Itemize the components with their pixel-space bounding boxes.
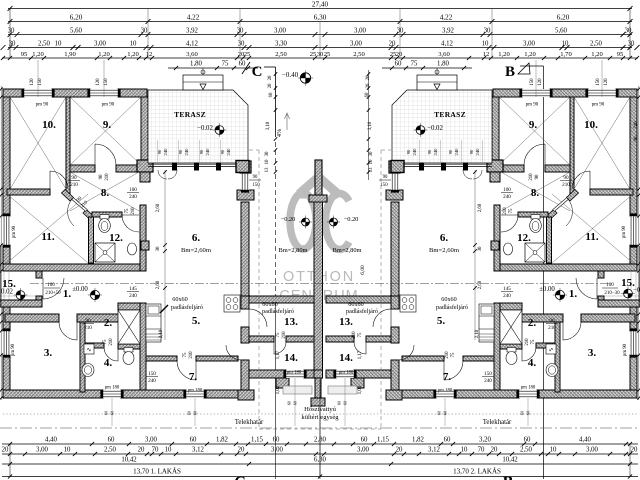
svg-text:240: 240 [129,293,137,299]
svg-text:210−30: 210−30 [604,291,620,296]
svg-text:1,00: 1,00 [276,385,281,394]
svg-text:TERASZ: TERASZ [434,110,466,119]
svg-text:70: 70 [152,447,159,454]
wall rooms 10/9 [66,97,70,194]
svg-text:C: C [234,474,246,480]
svg-text:4.: 4. [528,357,537,369]
svg-text:10.: 10. [42,119,56,131]
svg-text:−0.02: −0.02 [427,125,443,132]
svg-text:240: 240 [163,148,168,156]
svg-text:210: 210 [525,338,530,346]
svg-text:210: 210 [189,351,194,359]
terrace posts [172,163,177,171]
svg-text:75: 75 [531,339,536,344]
svg-text:1,70: 1,70 [560,51,572,58]
door room10 [50,171,68,189]
svg-text:60: 60 [444,437,451,444]
svg-text:2,50: 2,50 [104,447,116,454]
terrace paving [148,90,248,163]
svg-text:90: 90 [99,174,104,179]
svg-text:90: 90 [535,174,540,179]
svg-text:20: 20 [396,51,403,58]
svg-text:95: 95 [21,51,28,58]
svg-text:210: 210 [84,325,92,331]
svg-text:2,60: 2,60 [478,203,483,212]
svg-text:1,17: 1,17 [358,350,363,359]
svg-text:2.: 2. [104,317,113,329]
wall above attic box [118,303,146,310]
svg-text:pm 90: pm 90 [623,343,628,356]
svg-text:13,70 2. LAKÁS: 13,70 2. LAKÁS [453,468,501,476]
svg-text:30: 30 [8,28,15,35]
window pm180 room14 [286,370,304,378]
svg-text:10: 10 [265,159,270,164]
stub south [276,378,289,388]
svg-text:150: 150 [148,371,156,377]
svg-text:Bm=2,80m: Bm=2,80m [333,247,362,254]
svg-text:75: 75 [411,61,418,68]
svg-text:9.: 9. [529,119,538,131]
svg-text:pm 90: pm 90 [592,103,605,108]
svg-text:240: 240 [148,378,156,384]
svg-text:20: 20 [268,83,273,88]
svg-text:1,15: 1,15 [377,437,389,444]
svg-text:Bm=2,60m: Bm=2,60m [429,247,460,254]
bottom dimension rows [2,443,638,445]
svg-text:30: 30 [478,246,483,251]
svg-text:10: 10 [55,41,62,48]
section line C [275,67,277,137]
svg-text:pm 90: pm 90 [36,103,49,108]
svg-text:2,80: 2,80 [314,437,326,444]
svg-text:90: 90 [253,175,258,180]
svg-text:2,60: 2,60 [156,203,161,212]
bottom window axes [111,398,113,426]
svg-text:3,10: 3,10 [266,121,271,130]
svg-text:30: 30 [265,151,270,156]
svg-text:210: 210 [445,351,450,359]
svg-text:10: 10 [461,447,468,454]
svg-text:20: 20 [268,75,273,80]
svg-text:20: 20 [389,41,396,48]
svg-text:210: 210 [131,207,136,215]
terrace steps notch [183,75,223,90]
svg-text:1,82: 1,82 [412,437,424,444]
svg-text:3,00: 3,00 [586,447,598,454]
svg-text:27,40: 27,40 [312,1,329,9]
svg-text:3,00: 3,00 [523,41,535,48]
window pm180 bottom room4 [103,390,121,398]
svg-text:3.: 3. [44,347,53,359]
svg-text:90: 90 [199,149,204,154]
door room13 [249,309,267,327]
svg-text:padlásfeljáró: padlásfeljáró [262,308,294,315]
svg-text:150: 150 [484,371,492,377]
svg-text:25: 25 [324,51,331,58]
svg-text:90: 90 [563,175,569,181]
svg-text:75: 75 [276,332,281,337]
svg-text:5.: 5. [192,315,201,327]
toilet room4 [124,348,133,353]
svg-text:150: 150 [530,78,535,86]
svg-text:3,00: 3,00 [145,437,157,444]
svg-text:12: 12 [483,51,490,58]
svg-text:1,20: 1,20 [524,51,536,58]
svg-text:13.: 13. [339,316,353,328]
wall room9 south [70,165,95,172]
svg-text:6,30: 6,30 [314,14,327,22]
wall rooms13/14 [249,336,274,342]
svg-text:4,12: 4,12 [441,41,453,48]
svg-text:pm 180: pm 180 [287,371,302,376]
svg-text:75: 75 [358,332,363,337]
svg-text:pm 90: pm 90 [102,103,115,108]
svg-text:210: 210 [70,182,78,188]
svg-text:240: 240 [454,148,459,156]
wall room14 south [249,370,286,378]
door room12 [122,215,139,232]
sink room12 [127,243,136,255]
svg-text:Bm=2,80m: Bm=2,80m [279,247,308,254]
wall exterior top [3,89,24,97]
svg-text:90: 90 [634,136,639,141]
svg-text:60: 60 [524,437,531,444]
svg-text:90: 90 [383,175,388,180]
svg-text:−0.02: −0.02 [197,125,213,132]
right apartment walls (mirror) [326,68,640,400]
left apartment walls [0,68,314,400]
breezeway vertical dim chains [368,70,370,180]
svg-text:pm 180: pm 180 [188,389,203,394]
heat pump outdoor units [283,386,312,394]
svg-text:4.: 4. [104,357,113,369]
svg-text:150: 150 [38,78,43,86]
svg-text:30: 30 [141,28,148,35]
svg-text:75: 75 [222,61,229,68]
wall room11 east [89,217,94,263]
svg-text:150: 150 [380,183,388,188]
svg-text:9.: 9. [103,119,112,131]
room6 dim line [164,170,166,340]
svg-text:90: 90 [220,149,225,154]
svg-text:90: 90 [427,149,432,154]
washer room4 [84,344,94,354]
window pm180 bottom room7 [186,390,204,398]
svg-text:10: 10 [550,447,557,454]
svg-text:25: 25 [244,51,251,58]
svg-text:4,12: 4,12 [186,41,198,48]
door east room7 [226,345,241,360]
svg-text:14.: 14. [339,352,353,364]
wall room10 south [7,189,50,195]
svg-text:−0.20: −0.20 [344,216,359,223]
svg-text:3,00: 3,00 [271,447,283,454]
svg-text:150: 150 [252,183,260,188]
svg-text:11.: 11. [585,231,598,243]
svg-text:4,22: 4,22 [187,14,200,22]
svg-text:2.: 2. [528,317,537,329]
svg-text:3,30: 3,30 [275,41,287,48]
svg-text:240: 240 [484,378,492,384]
svg-text:60: 60 [190,437,197,444]
svg-text:100: 100 [47,283,55,288]
svg-text:150: 150 [596,78,601,86]
door room3 [59,322,77,340]
wall inner east [241,202,249,296]
svg-text:3,60: 3,60 [186,51,198,58]
svg-text:B: B [503,474,514,480]
attic ladder box [118,310,140,344]
svg-text:pm 180: pm 180 [339,371,354,376]
svg-text:210: 210 [105,173,110,181]
section line B [543,66,545,479]
svg-text:30: 30 [238,41,245,48]
svg-text:210: 210 [562,182,570,188]
svg-text:12.: 12. [109,232,123,244]
svg-text:3,12: 3,12 [428,447,440,454]
svg-text:3,00: 3,00 [36,447,48,454]
svg-text:6.: 6. [440,232,449,244]
svg-text:13: 13 [369,167,374,172]
svg-text:pm 90: pm 90 [11,343,16,356]
stove [224,295,240,312]
svg-text:7.: 7. [443,371,452,383]
corner post [240,161,251,173]
porch canopy line [0,246,2,307]
wall rooms11/12 south [3,264,146,271]
svg-text:60: 60 [273,437,280,444]
svg-text:3,92: 3,92 [442,28,454,35]
svg-text:8.: 8. [101,187,110,199]
svg-text:7.: 7. [189,371,198,383]
svg-text:60: 60 [239,61,246,68]
svg-text:2,10: 2,10 [159,329,164,338]
svg-text:6.: 6. [192,232,201,244]
svg-text:1,90: 1,90 [64,51,76,58]
svg-text:90: 90 [71,175,77,181]
svg-text:−0.40: −0.40 [282,71,299,79]
svg-text:8.: 8. [531,187,540,199]
svg-text:90: 90 [448,149,453,154]
svg-text:10: 10 [165,447,172,454]
door rooms13/14 [274,342,286,354]
room diagonal marks [7,97,141,263]
terrace opening axis lines [157,140,159,162]
svg-text:60: 60 [395,61,402,68]
property line Telekhatar [0,427,640,429]
svg-text:1,20: 1,20 [32,51,44,58]
svg-text:90: 90 [549,318,555,324]
svg-text:3,00: 3,00 [274,28,286,35]
svg-text:30: 30 [397,28,404,35]
svg-text:1,20: 1,20 [98,51,110,58]
wall rooms2/4 [85,343,104,348]
svg-text:20: 20 [491,447,498,454]
svg-text:120: 120 [30,78,35,86]
svg-text:30: 30 [156,246,161,251]
svg-text:pm 90: pm 90 [526,103,539,108]
svg-text:5,60: 5,60 [555,28,567,35]
svg-text:4%: 4% [276,129,283,137]
wall room9 east / terrace west [141,97,148,160]
svg-text:3,00: 3,00 [354,28,366,35]
terrace small dimension row [168,67,258,69]
svg-text:210+50: 210+50 [45,291,61,296]
svg-text:60: 60 [361,437,368,444]
svg-text:240: 240 [503,194,511,200]
svg-text:30: 30 [369,151,374,156]
window pm90 left room11 [3,216,10,245]
svg-text:210: 210 [548,325,556,331]
svg-text:padlásfeljáró: padlásfeljáró [171,304,203,311]
corner block room8 NE [137,160,153,172]
svg-text:30: 30 [628,41,635,48]
svg-text:Telekhatár: Telekhatár [235,419,264,426]
porch open edge [3,272,5,300]
svg-text:70: 70 [478,447,485,454]
svg-text:4,40: 4,40 [45,437,57,444]
svg-text:1,00: 1,00 [358,385,363,394]
svg-text:240: 240 [184,148,189,156]
svg-text:75: 75 [103,339,108,344]
svg-text:240: 240 [129,194,137,200]
door room9 [95,144,116,165]
svg-text:6,20: 6,20 [557,14,570,22]
svg-text:±0.00: ±0.00 [72,286,88,293]
svg-text:1,15: 1,15 [251,437,263,444]
svg-text:90: 90 [157,149,162,154]
svg-text:4,22: 4,22 [440,14,453,22]
svg-text:145: 145 [129,286,137,292]
svg-text:30: 30 [625,28,632,35]
svg-text:C: C [252,64,263,80]
svg-text:3,92: 3,92 [186,28,198,35]
wall rooms5/7 [146,356,177,361]
svg-text:3.: 3. [588,347,597,359]
wall room12 north [92,212,122,217]
svg-text:60x60: 60x60 [348,301,363,308]
svg-text:1.: 1. [569,288,578,300]
svg-text:210: 210 [529,173,534,181]
svg-text:30: 30 [237,28,244,35]
svg-text:240: 240 [205,148,210,156]
svg-text:10,42: 10,42 [121,457,137,464]
svg-text:3,00: 3,00 [357,447,369,454]
svg-text:6,30: 6,30 [314,457,326,464]
svg-text:30: 30 [9,41,16,48]
svg-text:90: 90 [178,149,183,154]
svg-text:11.: 11. [41,231,54,243]
svg-text:20: 20 [2,447,9,454]
svg-text:1,20: 1,20 [127,51,139,58]
svg-text:pm 180: pm 180 [521,386,536,391]
top dimension chain rows [8,8,632,10]
svg-text:240: 240 [226,148,231,156]
svg-text:75: 75 [183,352,188,357]
svg-text:90: 90 [406,149,411,154]
svg-text:10: 10 [64,447,71,454]
svg-text:6,20: 6,20 [70,14,83,22]
window pm90 left room3 [3,331,10,355]
svg-text:90: 90 [85,318,91,324]
svg-text:5.: 5. [437,315,446,327]
svg-text:2,50: 2,50 [275,51,287,58]
window pm90 top room10 [24,89,52,97]
toilet room12 [100,215,109,220]
svg-text:3,60: 3,60 [438,51,450,58]
svg-text:3,20: 3,20 [479,437,491,444]
eave dotted line [3,413,637,415]
svg-text:60x60: 60x60 [262,301,277,308]
svg-text:20: 20 [396,447,403,454]
svg-text:12.: 12. [517,232,531,244]
shower room12 [95,243,115,262]
svg-text:120: 120 [538,78,543,86]
svg-text:B: B [505,64,515,80]
svg-text:100: 100 [606,283,614,288]
door rooms2/4 [104,347,118,361]
svg-text:13.: 13. [284,316,298,328]
svg-text:3,12: 3,12 [192,447,204,454]
svg-text:120: 120 [96,78,101,86]
svg-text:60x60: 60x60 [172,296,187,303]
svg-text:padlásfeljáró: padlásfeljáró [436,304,468,311]
svg-text:2,50: 2,50 [38,41,50,48]
svg-text:10: 10 [562,41,569,48]
wall room3 north [5,314,59,322]
svg-text:1,17: 1,17 [276,350,281,359]
opening east to terrace [241,173,249,190]
wall porch south [0,300,42,307]
svg-text:1.: 1. [63,288,72,300]
svg-text:90: 90 [469,149,474,154]
svg-text:Hőszivattyú: Hőszivattyú [304,406,337,413]
svg-text:120: 120 [604,78,609,86]
svg-text:padlásfeljáró: padlásfeljáró [346,308,378,315]
svg-text:1,80: 1,80 [190,61,202,68]
svg-text:1,80: 1,80 [437,61,449,68]
axis line [30,283,612,285]
svg-text:1,20: 1,20 [591,51,603,58]
svg-text:2,10: 2,10 [475,329,480,338]
watermark Otthon Centrum logo [290,177,349,250]
svg-text:60: 60 [108,437,115,444]
window pm90 top room9 [90,89,118,97]
svg-text:10,42: 10,42 [502,457,518,464]
wall room12 east [140,205,146,271]
svg-text:0.02: 0.02 [1,289,13,296]
wall entry jog [36,271,42,278]
terrace glazing [148,163,238,165]
svg-text:150: 150 [104,78,109,86]
svg-text:95: 95 [617,51,624,58]
svg-text:2,60: 2,60 [478,280,483,289]
svg-text:240: 240 [433,148,438,156]
wall kitchen west [140,303,146,390]
french doors terrace [158,170,177,179]
sink room4 [82,364,94,377]
svg-text:1,20: 1,20 [498,51,510,58]
svg-text:240: 240 [475,148,480,156]
svg-text:±0.00: ±0.00 [539,286,555,293]
svg-text:1,82: 1,82 [216,437,228,444]
svg-text:13,70 1. LAKÁS: 13,70 1. LAKÁS [133,468,181,476]
svg-text:Telekhatár: Telekhatár [483,419,512,426]
svg-text:60x60: 60x60 [441,296,456,303]
svg-text:2,60: 2,60 [156,280,161,289]
svg-text:30: 30 [484,28,491,35]
svg-text:TERASZ: TERASZ [174,110,206,119]
